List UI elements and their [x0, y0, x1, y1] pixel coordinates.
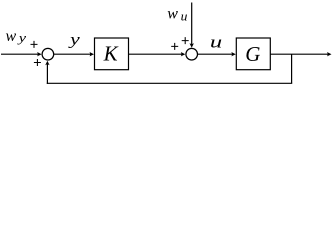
svg-text:w: w — [6, 28, 17, 45]
arrow into summing junction S1 — [37, 52, 42, 56]
wire feedback riser — [46, 64, 48, 84]
wire feedback bottom — [47, 82, 292, 84]
node feedback tap — [291, 54, 293, 83]
arrow output — [327, 52, 332, 56]
wire input w_y — [1, 53, 38, 55]
plus sign (main input of S2) — [171, 43, 178, 50]
wire K to S2 — [129, 53, 183, 55]
label y — [67, 32, 81, 49]
plus sign (w_y input of S1) — [31, 41, 38, 48]
arrow into summing junction S2 — [181, 52, 186, 56]
svg-text:K: K — [103, 42, 119, 66]
label w_y — [6, 28, 27, 45]
label u — [210, 32, 222, 51]
wire w_u (vertical) — [191, 3, 193, 45]
wire S2 to G — [198, 53, 233, 55]
svg-text:u: u — [181, 9, 188, 24]
block K — [95, 38, 129, 70]
wire S1 to K — [54, 53, 91, 55]
arrow into block K — [90, 52, 95, 56]
svg-text:y: y — [67, 32, 81, 49]
plus sign (feedback input of S1) — [34, 59, 41, 66]
svg-text:y: y — [16, 30, 26, 45]
arrow into block G — [231, 52, 236, 56]
plus sign (w_u input of S2) — [182, 37, 189, 44]
wire G to output — [270, 53, 328, 55]
svg-text:w: w — [167, 6, 178, 23]
svg-text:G: G — [245, 42, 260, 66]
summing junction S1 — [42, 48, 54, 60]
svg-text:u: u — [210, 32, 222, 51]
summing junction S2 — [186, 48, 198, 60]
block G — [236, 38, 270, 70]
arrow w_u into S2 top — [190, 43, 194, 48]
arrow feedback into S1 bottom — [45, 61, 49, 65]
label w_u — [167, 6, 188, 24]
